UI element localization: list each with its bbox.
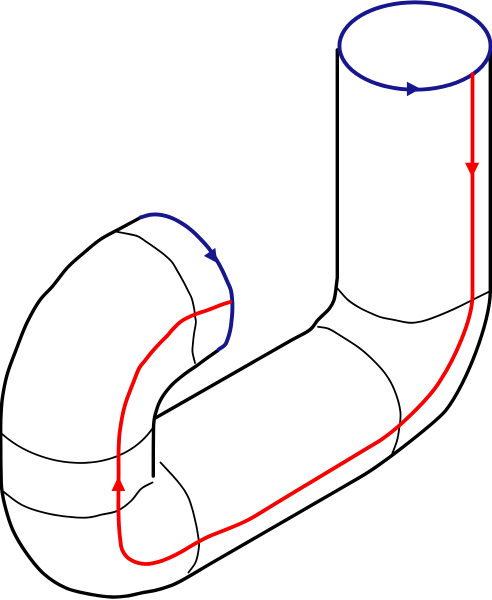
thin far rim of left opening xyxy=(116,232,196,364)
blue top boundary ellipse xyxy=(339,2,490,89)
inner silhouette: cylinder left edge, inner elbow, diagonal tube upper edge xyxy=(155,50,337,418)
red down arrow on cylinder xyxy=(465,163,479,178)
thin seam: bottom of vertical cylinder xyxy=(338,289,491,323)
thin seam: right end of diagonal tube xyxy=(318,327,401,457)
thin seam: left end of diagonal tube xyxy=(161,463,200,573)
thin cross arc 2 on U-bend xyxy=(3,483,153,518)
red up arrow on left tube xyxy=(112,476,126,491)
blue front rim of left opening xyxy=(141,214,232,349)
left tube right silhouette xyxy=(153,351,218,477)
blue arrow on top ellipse pointing right xyxy=(407,82,421,96)
red curve on tube surface xyxy=(118,74,472,564)
thin cross arc 1 on U-bend xyxy=(1,427,154,463)
blue arrow on left opening arc xyxy=(204,248,217,263)
